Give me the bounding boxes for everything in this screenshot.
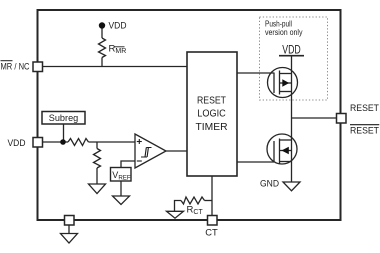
svg-text:MR / NC: MR / NC <box>1 62 30 73</box>
resistor divider bottom <box>96 142 98 149</box>
svg-text:RESET: RESET <box>197 94 226 106</box>
wire resistor to comparator <box>89 141 136 143</box>
RESET LOGIC TIMER block <box>187 52 237 176</box>
pin VDD <box>33 138 43 148</box>
VREF block <box>111 168 132 182</box>
svg-text:Subreg: Subreg <box>49 113 79 124</box>
ground (bottom-left pin) <box>61 234 78 244</box>
VDD node dot (top) <box>99 22 105 28</box>
wire RCT right <box>205 200 213 202</box>
wire VDD net <box>42 141 68 143</box>
ground (VREF) <box>113 196 130 205</box>
Subreg block <box>42 112 85 125</box>
wire timer to PMOS gate <box>237 72 274 74</box>
resistor RMR <box>99 38 106 58</box>
wire VREF to comparator minus <box>121 161 135 168</box>
svg-text:LOGIC: LOGIC <box>197 108 226 120</box>
pin GND (bottom-left) <box>65 216 75 226</box>
dashed push-pull option box <box>260 17 328 100</box>
svg-text:version only: version only <box>265 28 303 37</box>
ground (divider) <box>89 184 106 194</box>
outer IC boundary box <box>38 10 341 220</box>
wire Subreg to VDD net <box>63 124 65 142</box>
transistor PMOS (push-pull high side) <box>268 68 298 98</box>
wire VREF to ground <box>120 181 122 196</box>
wire pin to ground <box>68 225 70 234</box>
wire timer to NMOS gate <box>237 161 274 163</box>
wire timer to CT pin <box>211 176 213 216</box>
hysteresis symbol <box>141 148 152 158</box>
pin CT <box>208 216 218 226</box>
svg-text:VDD: VDD <box>282 44 301 56</box>
wire RCT left to ground <box>175 201 182 212</box>
ground (output stage) <box>283 182 300 191</box>
wire VDD rail through transistors to GND <box>291 56 293 182</box>
svg-text:RESET: RESET <box>350 103 379 114</box>
transistor NMOS (low side) <box>267 134 297 164</box>
comparator U1 <box>135 134 166 168</box>
wire RMR to MR line <box>101 58 103 67</box>
resistor RCT <box>181 197 205 204</box>
svg-text:TIMER: TIMER <box>196 121 228 133</box>
pin RESET <box>337 114 347 124</box>
pin MR/NC <box>33 62 43 72</box>
svg-text:RESET: RESET <box>350 126 379 137</box>
resistor divider top <box>68 139 89 146</box>
wire comparator output <box>166 150 187 152</box>
svg-text:VDD: VDD <box>109 21 127 32</box>
wire MR/NC net <box>42 66 187 68</box>
ground (RCT) <box>167 211 184 218</box>
svg-text:CT: CT <box>205 228 218 238</box>
wire output node to RESET pin <box>292 117 337 119</box>
wire VDD to RMR <box>101 29 103 39</box>
junction VDD/Subreg <box>60 139 66 145</box>
svg-text:GND: GND <box>260 178 279 189</box>
svg-text:VDD: VDD <box>8 138 26 149</box>
